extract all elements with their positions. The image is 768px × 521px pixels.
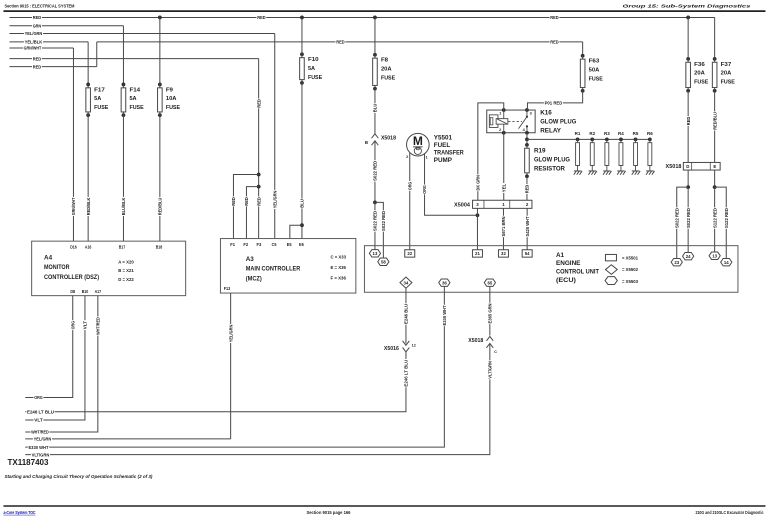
ECU pin 34 diamond bbox=[400, 277, 412, 288]
svg-text:RELAY: RELAY bbox=[540, 128, 562, 135]
svg-text:RESISTOR: RESISTOR bbox=[534, 166, 565, 173]
svg-text:E6: E6 bbox=[299, 242, 304, 247]
svg-text:RED/BLU: RED/BLU bbox=[712, 112, 718, 130]
svg-text:R6: R6 bbox=[647, 131, 653, 136]
svg-text:E = X35: E = X35 bbox=[330, 265, 346, 271]
svg-text:VLT: VLT bbox=[83, 321, 89, 330]
svg-text:YEL/GRN: YEL/GRN bbox=[228, 324, 234, 342]
svg-text:34: 34 bbox=[404, 280, 409, 285]
ECU pin 36 hexagon bbox=[439, 279, 450, 286]
wire ORG pump pin1 to X5004 node bbox=[425, 153, 478, 215]
wire YEL/GRN bottom run bbox=[25, 438, 230, 440]
svg-text:23: 23 bbox=[674, 260, 679, 265]
svg-text:RED: RED bbox=[244, 197, 250, 206]
wire BLU/BLK F14 to DSZ B17 bbox=[122, 115, 124, 241]
svg-text:F36: F36 bbox=[694, 62, 705, 68]
svg-text:a-Core System TOC: a-Core System TOC bbox=[3, 510, 36, 515]
fuse F14 bbox=[122, 83, 126, 87]
wire S122 RED to ECU pin 14 bbox=[715, 187, 727, 258]
wire RED R19 to X5004 pin 2 bbox=[526, 176, 528, 200]
svg-text:A = X20: A = X20 bbox=[118, 260, 134, 266]
wire ORG pump pin2 to ECU pin 22 bbox=[409, 153, 411, 250]
node BLU split bbox=[300, 223, 304, 227]
svg-text:Starting and Charging Circuit: Starting and Charging Circuit Theory of … bbox=[4, 474, 152, 480]
svg-text:X5018: X5018 bbox=[468, 338, 483, 344]
svg-text:65: 65 bbox=[487, 280, 492, 285]
ECU pin 65 hexagon bbox=[484, 279, 495, 286]
svg-text:FUSE: FUSE bbox=[94, 105, 108, 111]
wire YEL/GRN MCZ pin F13 drop bbox=[230, 293, 232, 439]
svg-text:3: 3 bbox=[530, 112, 532, 116]
svg-text:S022 RED: S022 RED bbox=[381, 210, 387, 230]
svg-text:TX1187403: TX1187403 bbox=[7, 458, 49, 467]
svg-text:F3: F3 bbox=[256, 242, 261, 247]
svg-text:YEL/GRN: YEL/GRN bbox=[272, 190, 278, 208]
svg-text:E: E bbox=[713, 164, 716, 169]
svg-text:RED: RED bbox=[33, 64, 42, 70]
label YEL/BLK bbox=[24, 39, 43, 45]
wire BLU F10 to MCZ bbox=[301, 83, 303, 239]
node RED split to F1 bbox=[257, 173, 261, 177]
wire RED bus drop to F36 bbox=[687, 17, 689, 58]
svg-text:S671 BRN: S671 BRN bbox=[501, 216, 507, 236]
wire P01 RED F63 to relay pin 3 bbox=[527, 91, 582, 110]
wire RED bus drop to F10 bbox=[301, 17, 303, 54]
svg-text:10A: 10A bbox=[166, 96, 177, 102]
svg-text:BLU: BLU bbox=[300, 199, 306, 208]
wire RED bus corner drop to F37 bbox=[714, 17, 716, 58]
svg-text:2: 2 bbox=[499, 128, 501, 132]
svg-text:ORG: ORG bbox=[407, 181, 413, 190]
svg-text:FUSE: FUSE bbox=[694, 79, 708, 85]
svg-text:FUSE: FUSE bbox=[589, 76, 603, 82]
svg-text:F10: F10 bbox=[308, 57, 319, 63]
svg-text:210G and 210GLC Excavator Diag: 210G and 210GLC Excavator Diagnostic bbox=[695, 510, 763, 515]
fuse F10 bbox=[300, 52, 304, 56]
svg-text:F1: F1 bbox=[230, 242, 235, 247]
svg-text:20A: 20A bbox=[694, 71, 705, 77]
svg-text:FUEL: FUEL bbox=[434, 142, 451, 149]
svg-text:F8: F8 bbox=[381, 58, 389, 64]
label GRN/WHT bbox=[23, 45, 42, 51]
node S122 RED split bbox=[713, 185, 717, 189]
node F10 tap on RED bus bbox=[300, 16, 304, 20]
svg-text:PUMP: PUMP bbox=[434, 157, 452, 164]
svg-text:X5004: X5004 bbox=[454, 202, 471, 208]
svg-text:F9: F9 bbox=[166, 87, 174, 93]
footer rule bbox=[3, 505, 765, 507]
ground below R1 bbox=[574, 170, 581, 172]
wire ORG DSZ pin D8 to left bbox=[25, 296, 73, 398]
svg-text:RED: RED bbox=[231, 197, 237, 206]
label RED lower stub bbox=[32, 64, 42, 70]
relay pin 2 bbox=[502, 131, 506, 135]
wire WHT/RED DSZ pin A17 to left bbox=[25, 296, 98, 432]
node glow plug bus junction bbox=[525, 137, 529, 141]
label GRN bbox=[32, 23, 42, 29]
motor Y5501 fuel transfer pump bbox=[407, 133, 430, 156]
label RED mid lower bus bbox=[336, 39, 346, 45]
wire RED to MCZ pin F2 bbox=[246, 187, 258, 239]
ECU pin 23 hexagon bbox=[671, 258, 682, 265]
label RED bbox=[32, 56, 42, 62]
ECU pin 13 hexagon bbox=[369, 250, 380, 257]
svg-text:RED: RED bbox=[33, 15, 42, 21]
wire VLT/GRN X5018 C to bottom bbox=[25, 343, 490, 454]
svg-text:22: 22 bbox=[407, 251, 412, 256]
svg-text:RED/BLU: RED/BLU bbox=[158, 197, 164, 215]
svg-text:1: 1 bbox=[499, 112, 501, 116]
relay switch blade bbox=[526, 110, 528, 117]
ground below R3 bbox=[603, 170, 610, 172]
label GRN/WHT drop to D16 bbox=[70, 197, 77, 216]
svg-text:F63: F63 bbox=[589, 59, 600, 65]
svg-text:YEL/GRN: YEL/GRN bbox=[25, 31, 43, 37]
svg-text:S122 RED: S122 RED bbox=[712, 208, 718, 228]
svg-text:(MCZ): (MCZ) bbox=[246, 275, 262, 282]
node S022 RED right split bbox=[686, 185, 690, 189]
svg-text:A16: A16 bbox=[85, 245, 92, 250]
svg-text:R2: R2 bbox=[589, 131, 595, 136]
svg-text:RED: RED bbox=[686, 116, 692, 125]
relay K16 glow plug relay bbox=[487, 110, 535, 133]
svg-text:20A: 20A bbox=[721, 71, 732, 77]
svg-text:= X5503: = X5503 bbox=[622, 279, 638, 285]
svg-text:E330 WHT: E330 WHT bbox=[442, 305, 448, 325]
wire S022 RED to ECU pin 58 bbox=[375, 202, 383, 258]
fuse F37 bbox=[713, 57, 717, 61]
svg-text:VLT: VLT bbox=[34, 418, 43, 424]
fuse F9 bbox=[158, 83, 162, 87]
svg-text:14: 14 bbox=[724, 260, 729, 265]
svg-text:20A: 20A bbox=[381, 67, 392, 73]
svg-text:F2: F2 bbox=[243, 242, 248, 247]
svg-text:YEL: YEL bbox=[501, 184, 507, 193]
svg-text:GLOW PLUG: GLOW PLUG bbox=[540, 119, 576, 126]
wire relay pin4 to glow plug bus bbox=[526, 133, 528, 140]
svg-text:GLOW PLUG: GLOW PLUG bbox=[534, 157, 570, 164]
connector X5004 bbox=[473, 200, 532, 208]
ECU legend hexagon = X5503 bbox=[605, 277, 617, 285]
wire E330 WHT ECU pin 36 to bottom bbox=[25, 286, 444, 447]
controller A1 ENGINE CONTROL UNIT (ECU) box bbox=[364, 246, 738, 293]
svg-text:D8: D8 bbox=[70, 289, 75, 294]
header rule bbox=[3, 10, 765, 12]
svg-text:E246 BLU: E246 BLU bbox=[404, 303, 410, 323]
svg-text:21: 21 bbox=[475, 251, 480, 256]
wire DK GRN relay pin1 to X5004 pin 3 bbox=[478, 103, 504, 200]
svg-text:24: 24 bbox=[686, 254, 691, 259]
svg-text:E365 GRN: E365 GRN bbox=[488, 303, 494, 323]
svg-text:50A: 50A bbox=[589, 68, 600, 74]
ECU pin 32 square bbox=[498, 250, 508, 257]
node S022 RED split bbox=[373, 200, 377, 204]
svg-text:5A: 5A bbox=[94, 96, 102, 102]
wire RED/BLK F17 to DSZ A16 bbox=[87, 115, 89, 241]
ground below R2 bbox=[589, 170, 596, 172]
svg-text:A17: A17 bbox=[95, 289, 102, 294]
wire E246 BLU ECU pin 34 to X5016 bbox=[405, 288, 407, 343]
ECU pin 24 hexagon bbox=[683, 252, 694, 259]
wire GRN/WHT to DSZ pin D16 bbox=[9, 47, 73, 49]
svg-text:P01 RED: P01 RED bbox=[545, 101, 563, 107]
svg-text:D = X22: D = X22 bbox=[118, 277, 134, 283]
wire S022 RED to ECU pin 23 bbox=[677, 187, 688, 258]
svg-text:GRN/WHT: GRN/WHT bbox=[71, 198, 77, 216]
svg-text:YEL/BLK: YEL/BLK bbox=[25, 40, 43, 46]
ground below R6 bbox=[646, 170, 653, 172]
wire BLU F8 to X5018 B bbox=[374, 89, 376, 134]
ECU pin 13 right hexagon bbox=[709, 252, 720, 259]
fuse F36 bbox=[686, 57, 690, 61]
svg-text:MONITOR: MONITOR bbox=[44, 264, 70, 271]
svg-text:ENGINE: ENGINE bbox=[556, 260, 581, 267]
label YEL/GRN bbox=[24, 30, 43, 36]
svg-text:RED: RED bbox=[336, 40, 345, 46]
wire glow plug bus bbox=[527, 138, 650, 140]
wire RED/BLU F37 to X5018 E bbox=[714, 91, 716, 163]
svg-text:BLU/BLK: BLU/BLK bbox=[121, 197, 127, 215]
svg-text:A1: A1 bbox=[556, 252, 565, 259]
wire RED top bus bbox=[9, 16, 714, 18]
svg-text:13: 13 bbox=[373, 251, 378, 256]
svg-text:RED: RED bbox=[550, 40, 559, 46]
fuse F8 bbox=[373, 53, 377, 57]
relay coil bbox=[496, 119, 508, 125]
svg-text:C5: C5 bbox=[272, 242, 277, 247]
wire BLU to MCZ pin E5 bbox=[290, 225, 302, 238]
ECU pin 58 hexagon bbox=[378, 258, 389, 265]
svg-text:2: 2 bbox=[406, 155, 408, 159]
controller A3 MAIN CONTROLLER (MCZ) box bbox=[220, 239, 355, 294]
svg-text:S022 RED: S022 RED bbox=[674, 208, 680, 228]
relay pin 3 bbox=[525, 108, 529, 112]
svg-text:5A: 5A bbox=[308, 66, 316, 72]
svg-text:58: 58 bbox=[381, 259, 386, 264]
ECU legend square = X5501 bbox=[605, 254, 616, 260]
label RED right bus bbox=[550, 14, 560, 20]
svg-text:F14: F14 bbox=[129, 87, 140, 93]
svg-text:E330 WHT: E330 WHT bbox=[28, 445, 48, 451]
connector X5018 pin B inline bbox=[372, 134, 379, 138]
wire S022 RED X5018 B to split bbox=[374, 141, 376, 203]
wire VLT DSZ pin B10 to left bbox=[25, 296, 85, 420]
label RED above pin F3 bbox=[256, 197, 263, 207]
svg-text:ORG: ORG bbox=[70, 321, 76, 330]
wire S022 RED to ECU pin 13 bbox=[374, 202, 376, 249]
svg-text:F = X36: F = X36 bbox=[330, 276, 346, 282]
fuse F63 bbox=[581, 54, 585, 58]
svg-text:B: B bbox=[365, 140, 368, 145]
svg-text:K16: K16 bbox=[540, 110, 552, 117]
svg-text:F17: F17 bbox=[94, 87, 105, 93]
svg-text:ORG: ORG bbox=[422, 185, 428, 194]
svg-text:12: 12 bbox=[412, 344, 416, 348]
svg-text:RED: RED bbox=[525, 184, 531, 193]
label RED mid bus bbox=[257, 14, 267, 20]
svg-text:= X5502: = X5502 bbox=[622, 267, 638, 273]
svg-text:B17: B17 bbox=[119, 245, 126, 250]
connector X5018 D E bbox=[683, 162, 720, 170]
resistor R19 glow plug resistor bbox=[526, 139, 528, 145]
ECU pin 14 hexagon bbox=[721, 258, 732, 265]
wire RED/BLU F9 to DSZ B18 bbox=[159, 115, 161, 241]
node F9 tap on RED bus bbox=[158, 16, 162, 20]
svg-text:E246 LT BLU: E246 LT BLU bbox=[27, 409, 54, 415]
svg-text:B = X21: B = X21 bbox=[118, 268, 134, 274]
svg-text:RED: RED bbox=[257, 15, 266, 21]
svg-text:S022 RED: S022 RED bbox=[686, 208, 692, 228]
svg-text:E246 LT BLU: E246 LT BLU bbox=[404, 359, 410, 386]
svg-text:C: C bbox=[494, 350, 497, 354]
svg-text:CONTROL UNIT: CONTROL UNIT bbox=[556, 268, 599, 275]
svg-text:A3: A3 bbox=[246, 256, 255, 263]
node F36 tap on RED bus bbox=[686, 16, 690, 20]
svg-text:A4: A4 bbox=[44, 255, 53, 262]
svg-text:FUSE: FUSE bbox=[308, 75, 322, 81]
wire YEL relay pin2 to X5004 pin 1 bbox=[503, 133, 505, 201]
svg-text:X5018: X5018 bbox=[666, 164, 682, 170]
svg-text:FUSE: FUSE bbox=[166, 105, 180, 111]
svg-text:1: 1 bbox=[426, 156, 428, 160]
node RED split to F2 bbox=[257, 185, 261, 189]
wire GRN to fuse F14 bbox=[9, 25, 123, 27]
ground below R4 bbox=[617, 170, 624, 172]
svg-text:B10: B10 bbox=[82, 289, 89, 294]
wire E246 LT BLU X5016 to bottom bbox=[25, 352, 406, 412]
svg-text:FUSE: FUSE bbox=[381, 75, 395, 81]
svg-text:TRANSFER: TRANSFER bbox=[434, 150, 464, 157]
svg-text:R3: R3 bbox=[604, 131, 610, 136]
svg-text:BLU: BLU bbox=[373, 103, 379, 112]
svg-text:C = X33: C = X33 bbox=[330, 255, 346, 261]
svg-text:FUSE: FUSE bbox=[129, 105, 143, 111]
svg-text:D16: D16 bbox=[70, 245, 77, 250]
svg-text:13: 13 bbox=[712, 253, 717, 258]
svg-text:YEL/GRN: YEL/GRN bbox=[34, 437, 52, 443]
svg-text:B18: B18 bbox=[156, 245, 163, 250]
svg-text:RED/BLK: RED/BLK bbox=[86, 197, 92, 215]
svg-text:GRN: GRN bbox=[33, 23, 42, 29]
svg-text:RED: RED bbox=[256, 197, 262, 206]
controller A4 MONITOR CONTROLLER (DSZ) box bbox=[32, 241, 186, 296]
wire YEL/BLK to fuse F17 bbox=[9, 41, 88, 43]
relay pin 4 bbox=[525, 131, 529, 135]
relay coil core bbox=[489, 115, 498, 128]
wire E365 GRN ECU pin 65 to X5018 C bbox=[489, 286, 491, 335]
wire X5004 pin3 to ECU pin 21 bbox=[476, 208, 478, 249]
connector X5018 pin C inline bbox=[486, 336, 493, 340]
svg-text:5A: 5A bbox=[129, 96, 137, 102]
svg-text:VLT/GRN: VLT/GRN bbox=[488, 361, 494, 379]
wire S022 RED to ECU pin 24 bbox=[687, 187, 689, 252]
svg-text:R4: R4 bbox=[618, 131, 624, 136]
svg-text:ORG: ORG bbox=[34, 395, 43, 401]
svg-text:GRN/WHT: GRN/WHT bbox=[24, 46, 42, 52]
relay dashed actuator link bbox=[508, 120, 522, 122]
svg-text:Section 9015 page 166: Section 9015 page 166 bbox=[306, 510, 351, 515]
label RED left stub bbox=[32, 14, 42, 20]
svg-text:D: D bbox=[686, 164, 689, 169]
label YEL/GRN drop to C5 bbox=[272, 190, 279, 209]
svg-text:54: 54 bbox=[525, 251, 530, 256]
wire RED bus drop to F8 bbox=[374, 17, 376, 54]
svg-text:32: 32 bbox=[501, 251, 506, 256]
svg-text:Y5501: Y5501 bbox=[434, 135, 453, 142]
wire RED bus drop to F9 bbox=[159, 17, 161, 84]
svg-text:S420 WHT: S420 WHT bbox=[525, 216, 531, 236]
wire RED to MCZ pins F1 F2 F3 bbox=[9, 58, 258, 60]
svg-text:WHT/RED: WHT/RED bbox=[31, 430, 49, 436]
svg-text:F13: F13 bbox=[224, 286, 231, 291]
svg-text:36: 36 bbox=[442, 280, 447, 285]
wire RED to MCZ pin F1 bbox=[233, 175, 258, 239]
svg-text:FUSE: FUSE bbox=[721, 79, 735, 85]
svg-text:S022 RED: S022 RED bbox=[373, 210, 379, 230]
node X5004 pin3 to pump bbox=[476, 213, 480, 217]
svg-text:CONTROLLER (DSZ): CONTROLLER (DSZ) bbox=[44, 274, 99, 281]
ECU pin 22 square bbox=[405, 250, 415, 257]
wire S122 RED X5018 E to split bbox=[714, 170, 716, 187]
svg-text:RED: RED bbox=[33, 56, 42, 62]
svg-text:X5018: X5018 bbox=[381, 136, 396, 142]
svg-text:R19: R19 bbox=[534, 148, 546, 155]
wire YEL/GRN to MCZ pin C5 bbox=[9, 32, 274, 34]
svg-text:DK GRN: DK GRN bbox=[476, 175, 482, 191]
wire S022 RED X5018 D to split bbox=[687, 170, 689, 187]
wire RED lower bus to fuse F63 bbox=[9, 66, 96, 68]
ECU legend diamond = X5502 bbox=[605, 265, 617, 275]
wire S420 WHT X5004 pin2 to ECU pin 54 bbox=[526, 208, 528, 249]
svg-text:R1: R1 bbox=[575, 131, 581, 136]
svg-text:(ECU): (ECU) bbox=[556, 277, 576, 284]
svg-text:S122 RED: S122 RED bbox=[724, 208, 730, 228]
svg-text:M: M bbox=[413, 134, 423, 148]
svg-text:WHT/RED: WHT/RED bbox=[96, 317, 102, 335]
connector X5016 pin 12 inline bbox=[403, 341, 410, 345]
ECU pin 54 square bbox=[522, 250, 532, 257]
svg-text:X5016: X5016 bbox=[384, 346, 399, 352]
wire S671 BRN X5004 pin1 to ECU pin 32 bbox=[502, 208, 504, 249]
node F8 tap on RED bus bbox=[373, 16, 377, 20]
svg-text:S022 RED: S022 RED bbox=[373, 160, 379, 180]
ECU pin 21 square bbox=[472, 250, 482, 257]
svg-text:R5: R5 bbox=[633, 131, 639, 136]
label RED right lower bus bbox=[550, 39, 560, 45]
wire RED F36 to X5018 D bbox=[687, 91, 689, 163]
svg-text:Section 9015 : ELECTRICAL SYST: Section 9015 : ELECTRICAL SYSTEM bbox=[4, 4, 74, 9]
svg-text:MAIN CONTROLLER: MAIN CONTROLLER bbox=[246, 266, 301, 273]
fuse F17 bbox=[86, 83, 90, 87]
svg-text:RED: RED bbox=[550, 15, 559, 21]
svg-text:F37: F37 bbox=[721, 62, 732, 68]
svg-text:= X5501: = X5501 bbox=[622, 256, 638, 262]
svg-text:Group 15: Sub-System Diagnosti: Group 15: Sub-System Diagnostics bbox=[622, 4, 751, 9]
relay pin 1 bbox=[502, 108, 506, 112]
wire S122 RED to ECU pin 13 bbox=[714, 187, 716, 252]
label RED on MCZ feed drop bbox=[256, 99, 263, 109]
svg-text:E5: E5 bbox=[287, 242, 292, 247]
ground below R5 bbox=[632, 170, 639, 172]
svg-text:RED: RED bbox=[256, 99, 262, 108]
